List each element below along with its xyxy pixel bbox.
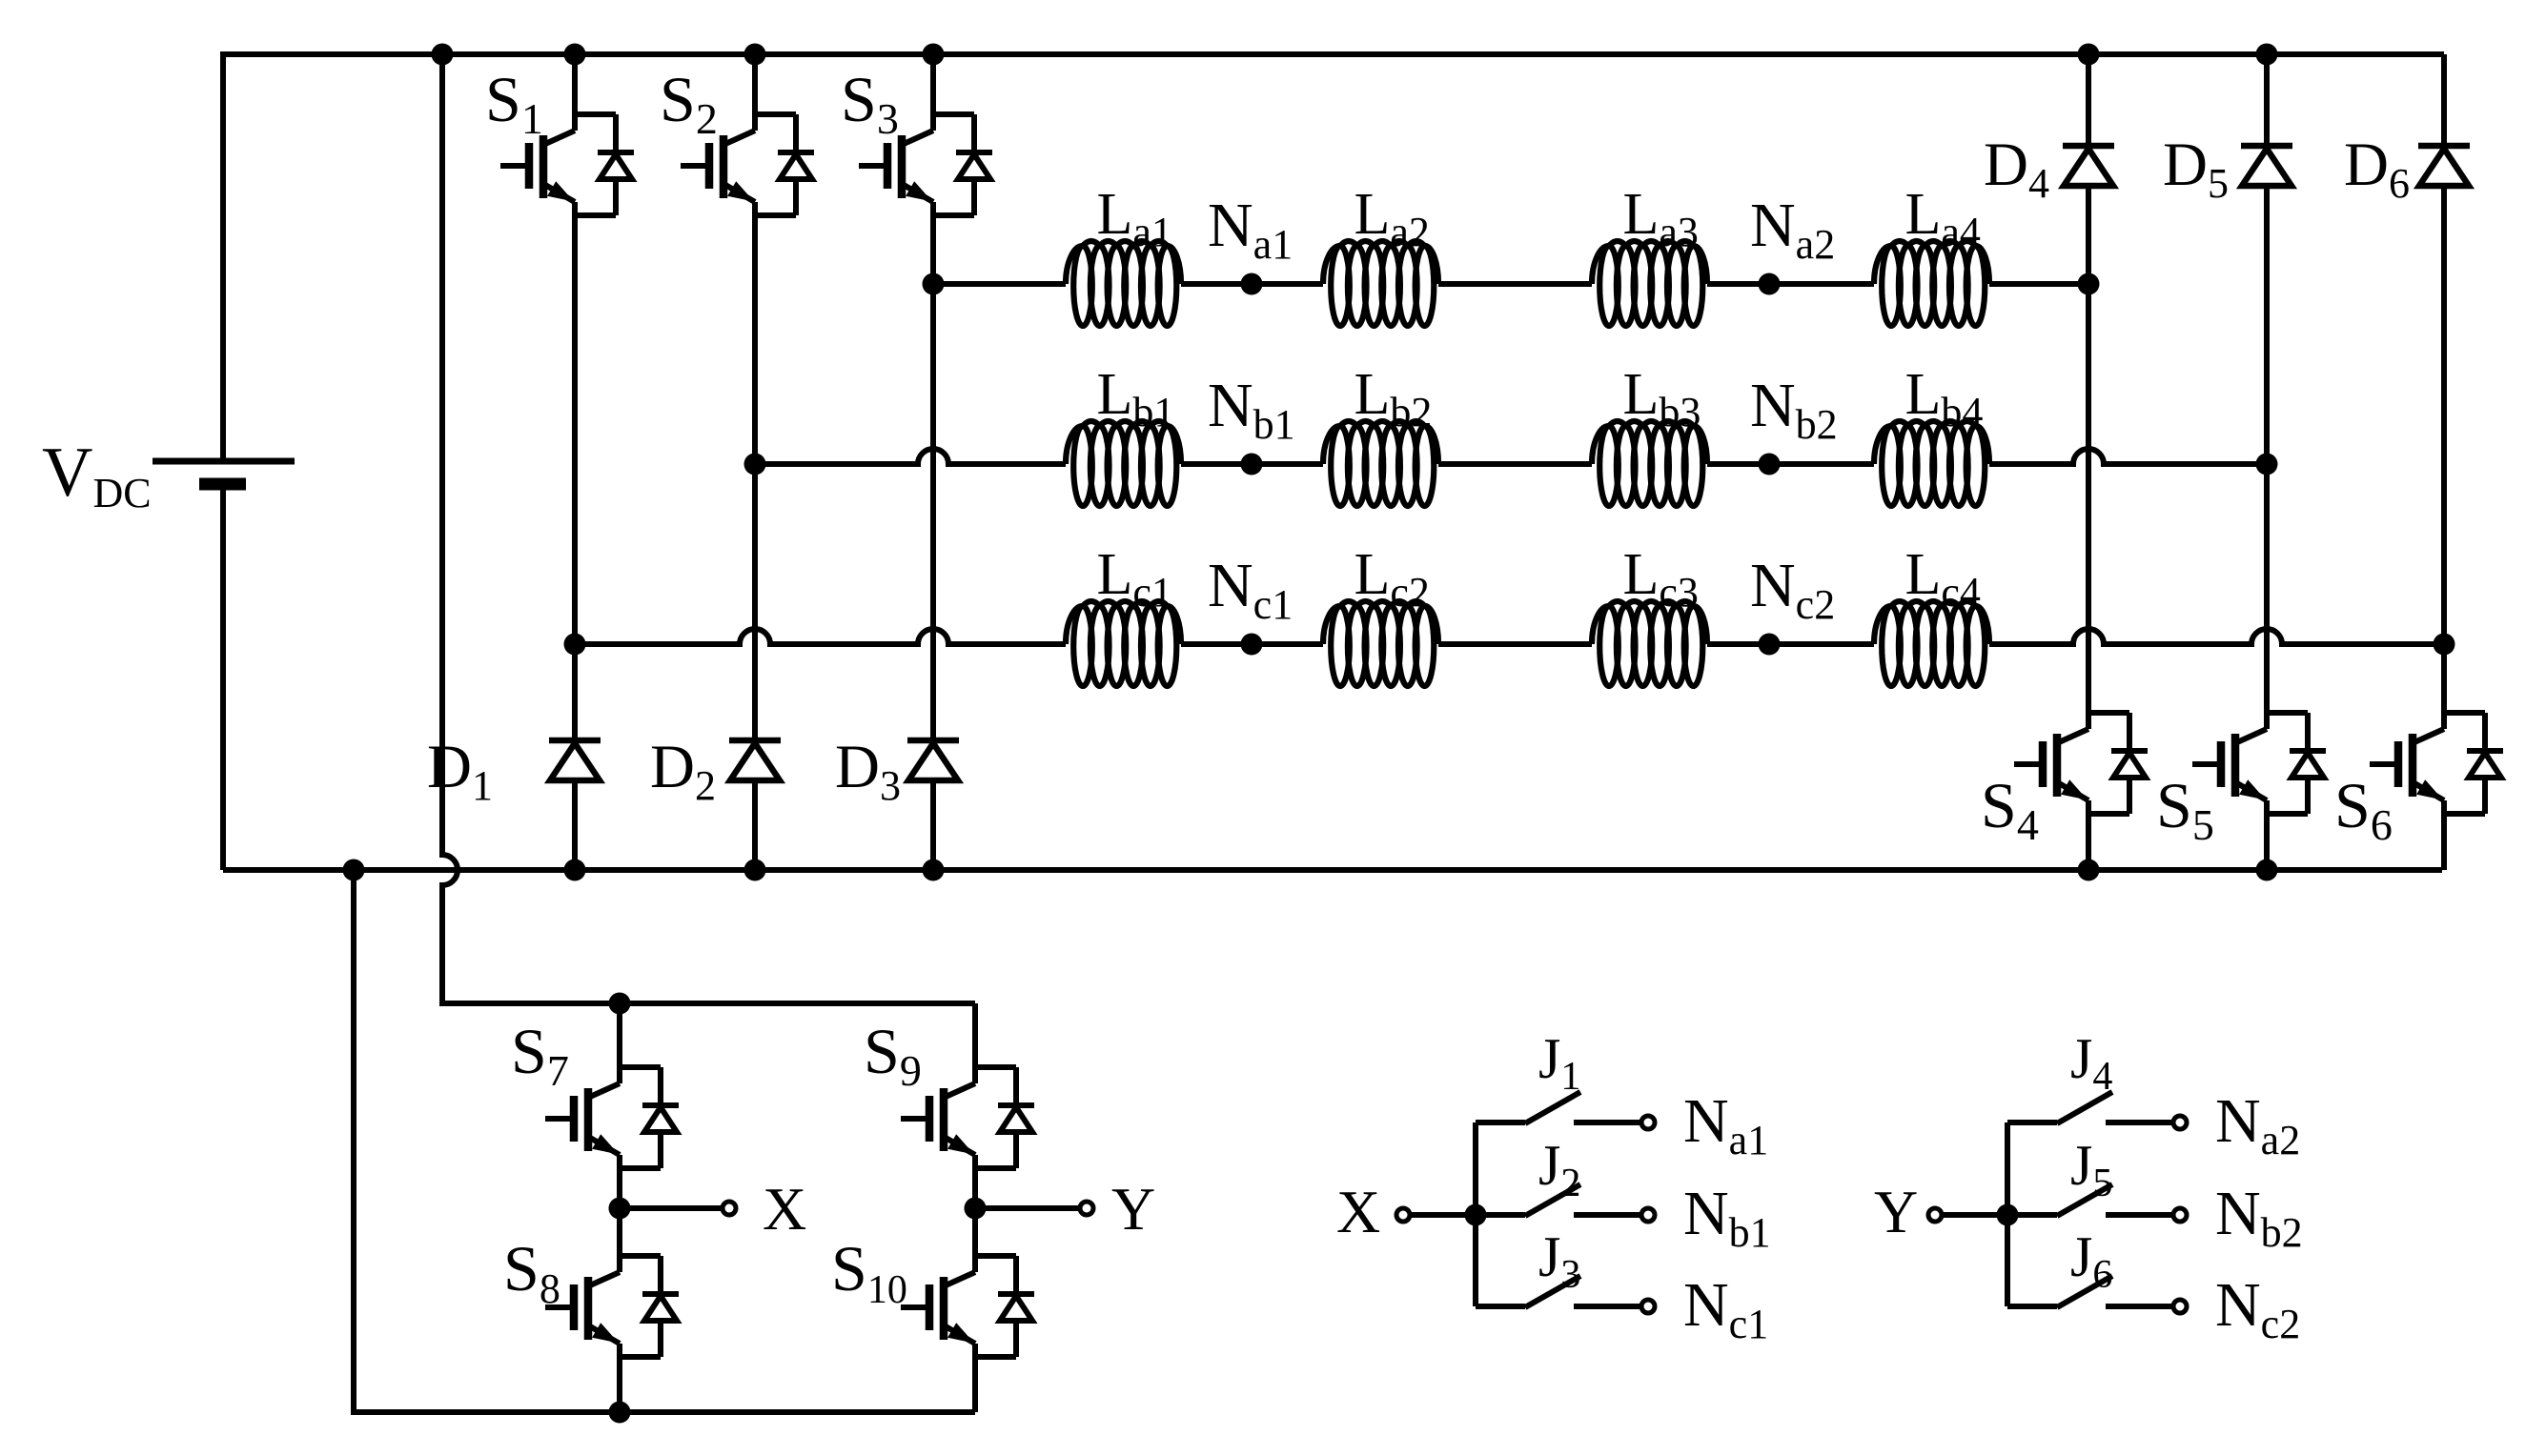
label Na2	[1750, 191, 1835, 268]
wire row a mid1	[1181, 281, 1323, 287]
terminal Na2	[2173, 1116, 2187, 1129]
label X selector	[1336, 1178, 1380, 1245]
label S2	[660, 63, 718, 143]
inductor Lc2	[1323, 601, 1438, 686]
label Nb2	[1750, 371, 1838, 448]
label S9	[864, 1015, 922, 1095]
label S6	[2334, 769, 2393, 849]
junction top rail	[923, 44, 945, 66]
wire row c mid2	[1438, 641, 1592, 647]
wire D5 column	[2264, 464, 2270, 713]
junction bottom rail	[2256, 859, 2278, 881]
inductor La1	[1066, 241, 1181, 326]
transistor S6	[2370, 713, 2503, 870]
label Y bridge	[1111, 1175, 1155, 1243]
transistor S1	[500, 54, 634, 215]
label S10	[831, 1232, 907, 1312]
wire Y selector bus	[2005, 1122, 2010, 1306]
node Nc1	[1241, 634, 1263, 656]
transistor S4	[2014, 713, 2148, 870]
label Lb1	[1097, 362, 1175, 435]
wire left rail lower	[220, 484, 226, 870]
terminal Nc2	[2173, 1300, 2187, 1313]
label J2	[1538, 1134, 1580, 1205]
junction X selector	[1465, 1204, 1487, 1226]
junction bottom rail	[564, 859, 586, 881]
wire S3 emitter to row a	[930, 215, 936, 284]
switch J1	[1476, 1092, 1640, 1123]
battery VDC	[153, 461, 295, 484]
wire row a left	[933, 281, 1066, 287]
wire row b left	[755, 449, 1066, 464]
inductor Lb1	[1066, 421, 1181, 506]
wire row b right	[1989, 449, 2267, 464]
terminal Nb1	[1641, 1208, 1655, 1222]
label J6	[2070, 1225, 2112, 1297]
inductor Lb3	[1592, 421, 1707, 506]
label Lb4	[1905, 362, 1984, 435]
terminal X bridge	[723, 1202, 736, 1215]
label X bridge	[763, 1175, 806, 1243]
label D3	[835, 733, 901, 809]
terminal Y bridge	[1080, 1202, 1093, 1215]
diode D3	[907, 284, 959, 870]
junction bottom rail	[343, 859, 365, 881]
label S4	[1981, 769, 2039, 849]
node Nb2	[1759, 454, 1781, 475]
node Nc2	[1759, 634, 1781, 656]
label D2	[650, 733, 716, 809]
switch J5	[2007, 1184, 2171, 1216]
wire row c mid3	[1707, 641, 1874, 647]
inductor Lc3	[1592, 601, 1707, 686]
diode D6	[2418, 54, 2470, 644]
wire row b mid1	[1181, 461, 1323, 467]
label Na2	[2215, 1086, 2300, 1163]
diode D4	[2063, 54, 2114, 284]
label Lc3	[1623, 542, 1699, 616]
inductor Lb2	[1323, 421, 1438, 506]
label D1	[427, 733, 493, 809]
junction top rail	[432, 44, 454, 66]
label S5	[2156, 769, 2214, 849]
svg-text:X: X	[763, 1175, 806, 1243]
wire bottom rail to bridge bottom	[351, 870, 356, 1412]
terminal Nb2	[2173, 1208, 2187, 1222]
label Nc1	[1683, 1270, 1768, 1347]
wire vertical to bridge top	[442, 54, 458, 1003]
terminal Na1	[1641, 1116, 1655, 1129]
label S1	[485, 63, 543, 143]
wire bridge bottom	[351, 1409, 975, 1415]
junction bottom rail	[744, 859, 766, 881]
inductor Lc4	[1874, 601, 1989, 686]
junction bottom rail	[923, 859, 945, 881]
wire Y selector lead	[1942, 1212, 2007, 1218]
label D5	[2163, 131, 2229, 207]
junction top rail	[744, 44, 766, 66]
label Nb2	[2215, 1179, 2303, 1256]
wire row c left	[575, 629, 1066, 644]
junction Y node	[965, 1198, 987, 1220]
label Y selector	[1874, 1178, 1918, 1245]
junction row c S1	[564, 634, 586, 656]
label Lc4	[1905, 542, 1981, 616]
wire X selector lead	[1410, 1212, 1476, 1218]
wire bottom rail	[223, 867, 2442, 873]
wire D4 column	[2086, 284, 2091, 713]
wire row c mid1	[1181, 641, 1323, 647]
inductor Lb4	[1874, 421, 1989, 506]
inductor La3	[1592, 241, 1707, 326]
diode D1	[549, 644, 601, 870]
terminal X selector	[1396, 1208, 1410, 1222]
label Na1	[1683, 1086, 1768, 1163]
wire left rail upper	[220, 51, 226, 461]
junction row b S2	[744, 454, 766, 475]
switch J3	[1476, 1276, 1640, 1307]
transistor S5	[2192, 713, 2326, 870]
svg-text:X: X	[1336, 1178, 1380, 1245]
diode D2	[729, 464, 781, 870]
wire S1 emitter to row c	[572, 215, 578, 644]
transistor S7	[545, 1003, 679, 1208]
label J1	[1538, 1027, 1580, 1099]
label J3	[1538, 1225, 1580, 1297]
diode D5	[2241, 54, 2292, 464]
label VDC	[42, 434, 152, 516]
transistor S9	[901, 1003, 1034, 1208]
terminal Nc1	[1641, 1300, 1655, 1313]
junction bridge bottom	[609, 1402, 631, 1424]
label Nb1	[1683, 1179, 1771, 1256]
label J4	[2070, 1027, 2112, 1099]
switch J2	[1476, 1184, 1640, 1216]
junction top rail	[564, 44, 586, 66]
label D6	[2344, 131, 2410, 207]
transistor S10	[901, 1208, 1034, 1412]
label Na1	[1208, 191, 1293, 268]
wire row a mid3	[1707, 281, 1874, 287]
junction Y selector	[1997, 1204, 2019, 1226]
junction bridge top	[609, 993, 631, 1015]
label Nb1	[1208, 371, 1295, 448]
wire row b mid3	[1707, 461, 1874, 467]
terminal Y selector	[1928, 1208, 1942, 1222]
wire row c right	[1989, 629, 2444, 644]
label S3	[841, 63, 899, 143]
label La3	[1623, 182, 1699, 255]
wire bridge top	[439, 1001, 975, 1006]
junction row b D5	[2256, 454, 2278, 475]
wire top rail	[223, 51, 2444, 57]
label La4	[1905, 182, 1981, 255]
junction bottom rail	[2078, 859, 2100, 881]
svg-text:Y: Y	[1874, 1178, 1918, 1245]
label Nc2	[2215, 1270, 2300, 1347]
inductor Lc1	[1066, 601, 1181, 686]
label S7	[511, 1015, 569, 1095]
svg-text:Y: Y	[1111, 1175, 1155, 1243]
junction row c D6	[2434, 634, 2455, 656]
inductor La2	[1323, 241, 1438, 326]
junction top rail	[2256, 44, 2278, 66]
inductor La4	[1874, 241, 1989, 326]
wire row a mid2	[1438, 281, 1592, 287]
label Lc1	[1097, 542, 1172, 616]
transistor S3	[859, 54, 992, 215]
wire row b mid2	[1438, 461, 1592, 467]
transistor S8	[545, 1208, 679, 1412]
node Na1	[1241, 273, 1263, 295]
wire Y stub	[975, 1205, 1080, 1211]
label Nc1	[1208, 551, 1293, 628]
label Nc2	[1750, 551, 1835, 628]
wire X stub	[620, 1205, 723, 1211]
switch J6	[2007, 1276, 2171, 1307]
node Nb1	[1241, 454, 1263, 475]
wire D6 column	[2441, 644, 2447, 713]
junction top rail	[2078, 44, 2100, 66]
label Lb3	[1623, 362, 1701, 435]
label Lb2	[1354, 362, 1433, 435]
label Lc2	[1354, 542, 1430, 616]
label La1	[1097, 182, 1172, 255]
label S8	[503, 1232, 560, 1312]
junction row a D4	[2078, 273, 2100, 295]
wire row a right	[1989, 281, 2088, 287]
switch J4	[2007, 1092, 2171, 1123]
junction X node	[609, 1198, 631, 1220]
wire X selector bus	[1473, 1122, 1478, 1306]
wire S2 emitter to row b	[752, 215, 758, 464]
junction row a S3	[923, 273, 945, 295]
label D4	[1984, 131, 2049, 207]
label La2	[1354, 182, 1430, 255]
label J5	[2070, 1134, 2112, 1205]
transistor S2	[681, 54, 814, 215]
node Na2	[1759, 273, 1781, 295]
